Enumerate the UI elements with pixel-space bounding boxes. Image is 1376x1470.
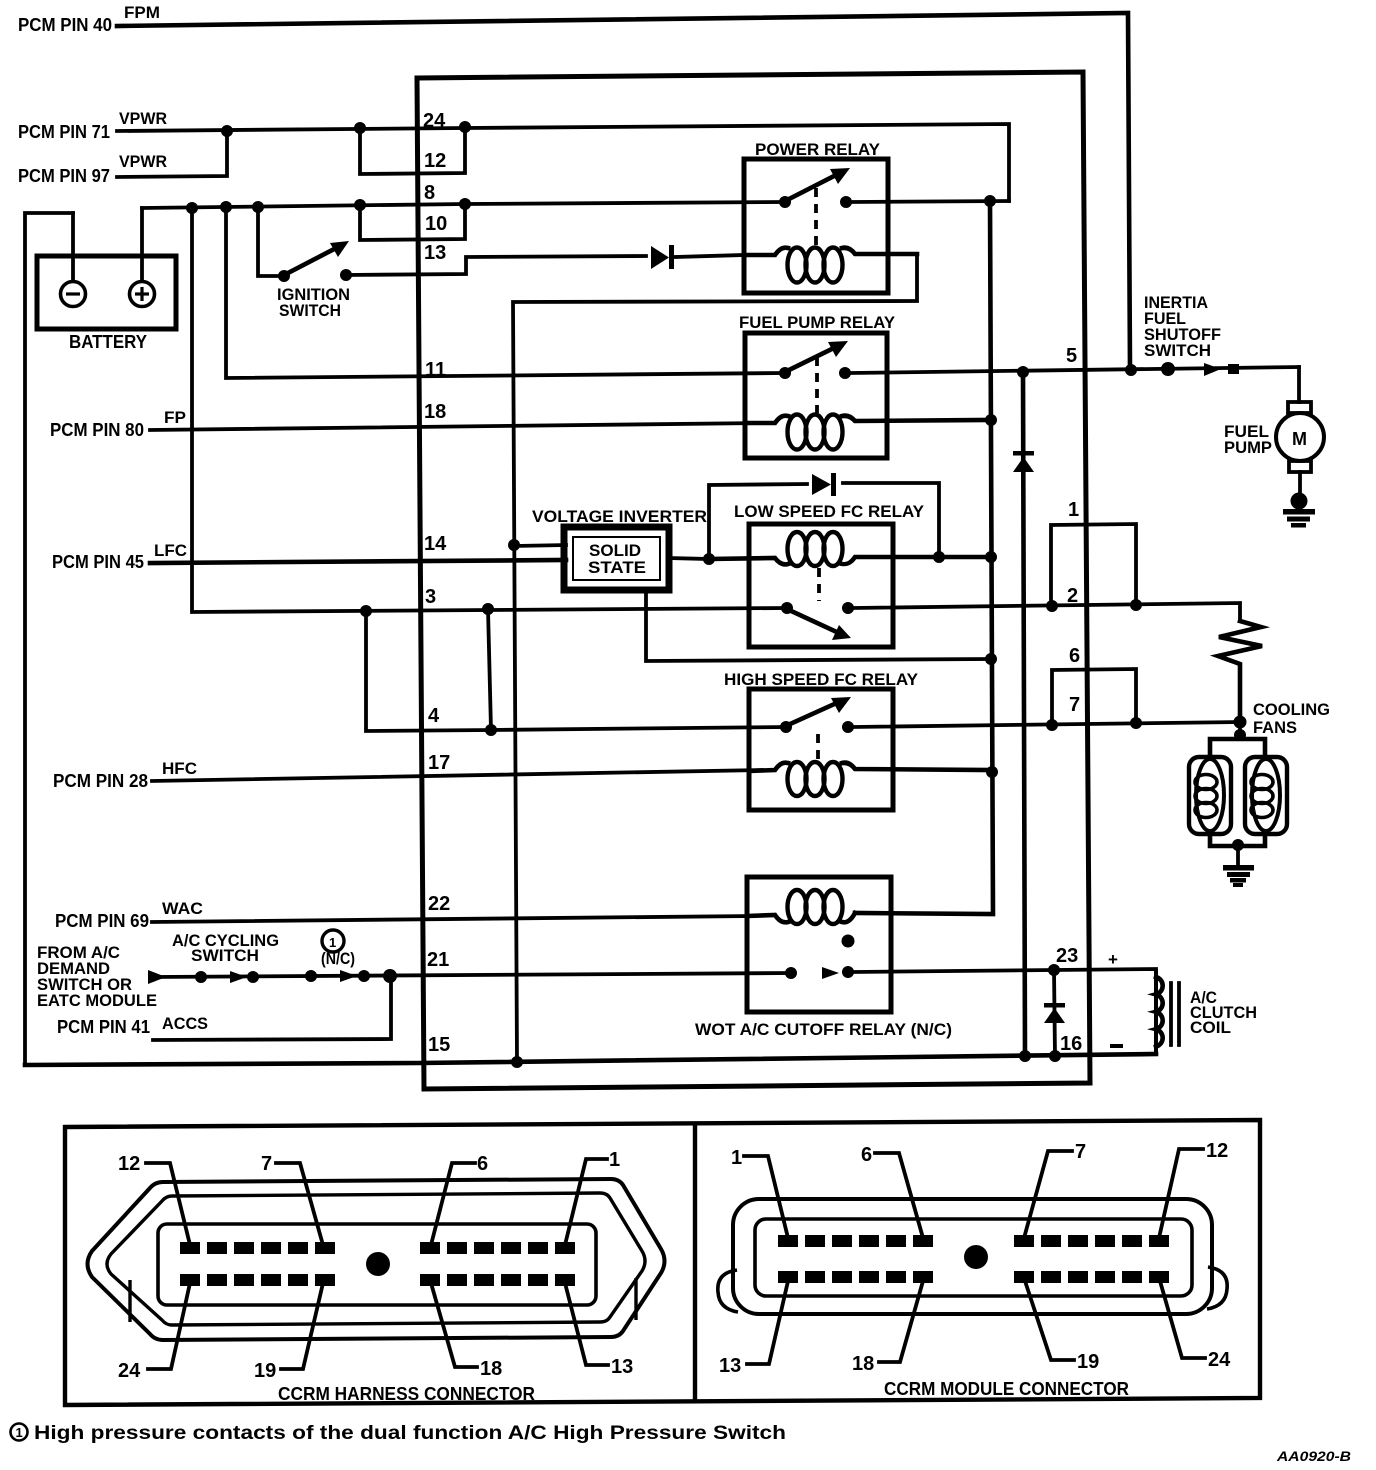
- pin number labels right edge of CCRM: [1056, 345, 1082, 1055]
- A/C clutch coil L1: [1108, 950, 1257, 1054]
- svg-text:18: 18: [424, 401, 446, 423]
- junction dot pin7 x1136: [1130, 717, 1142, 729]
- svg-text:12: 12: [1206, 1140, 1228, 1162]
- svg-text:1: 1: [1068, 499, 1079, 521]
- CCRM module connector J2 outline: [718, 1199, 1227, 1314]
- junction dot pin4 x491: [485, 724, 497, 736]
- svg-text:+: +: [1108, 950, 1118, 969]
- junction dot ACCS joins pin 21: [383, 969, 397, 983]
- svg-text:PCM PIN 41: PCM PIN 41: [57, 1017, 150, 1037]
- svg-text:VPWR: VPWR: [119, 152, 167, 171]
- svg-text:CCRM MODULE CONNECTOR: CCRM MODULE CONNECTOR: [884, 1379, 1129, 1399]
- harness connector pin 18 label: [431, 1283, 502, 1380]
- CCRM module box U1: [417, 72, 1090, 1089]
- svg-text:14: 14: [424, 533, 447, 555]
- module connector pin pads top left group: [778, 1235, 933, 1247]
- module connector pin 24 label: [1160, 1281, 1231, 1371]
- wire pin 5 down to fuel pump motor: [1297, 367, 1301, 402]
- wire ACCS from PCM PIN 41: [153, 976, 391, 1040]
- module connector pin 7 label: [1024, 1141, 1086, 1238]
- wire pin 7 HS output to cooling fans: [854, 722, 1240, 727]
- junction dot pin15 x517: [511, 1056, 523, 1068]
- wire ignition switch to pin 13 diode line: [346, 256, 646, 275]
- svg-text:1: 1: [731, 1147, 742, 1169]
- wire voltage inverter output: [669, 558, 709, 559]
- svg-text:COOLING: COOLING: [1253, 700, 1330, 719]
- junction dot fuel pump coil to B+ feed: [985, 414, 997, 426]
- node PCM PIN 45 label: [52, 541, 187, 572]
- junction dot pin7 x1052: [1046, 719, 1058, 731]
- svg-text:FP: FP: [164, 408, 186, 427]
- svg-text:WOT A/C CUTOFF RELAY (N/C): WOT A/C CUTOFF RELAY (N/C): [695, 1020, 952, 1039]
- junction dot bus x360: [354, 199, 366, 211]
- svg-text:23: 23: [1056, 945, 1078, 967]
- svg-text:LOW SPEED FC RELAY: LOW SPEED FC RELAY: [734, 502, 925, 521]
- diode CR2 on x1023 line: [1013, 372, 1034, 1056]
- svg-text:13: 13: [719, 1355, 741, 1377]
- svg-text:18: 18: [852, 1353, 874, 1375]
- diode CR3 on low speed relay loop: [812, 473, 836, 496]
- junction dot VPWR at x465: [459, 121, 471, 133]
- svg-text:High pressure contacts of the: High pressure contacts of the dual funct…: [34, 1423, 786, 1444]
- svg-text:COIL: COIL: [1190, 1018, 1231, 1037]
- svg-text:POWER RELAY: POWER RELAY: [755, 140, 881, 159]
- junction dot bus x465: [459, 198, 471, 210]
- low speed FC relay K3: [709, 502, 990, 647]
- junction dot x513 solid state feed: [508, 539, 520, 551]
- harness connector pin 19 label: [254, 1283, 323, 1382]
- wire power relay coil return to pin 15 via x513: [513, 254, 917, 1062]
- wire power relay output to VPWR corner: [852, 201, 1009, 202]
- svg-text:10: 10: [425, 213, 447, 235]
- svg-text:24: 24: [423, 110, 446, 132]
- svg-text:STATE: STATE: [588, 558, 646, 577]
- node FROM A/C DEMAND label: [37, 943, 157, 1010]
- harness connector pin pads bottom left group: [180, 1274, 335, 1286]
- svg-text:HIGH SPEED FC RELAY: HIGH SPEED FC RELAY: [724, 670, 919, 689]
- svg-text:19: 19: [1077, 1351, 1099, 1373]
- svg-text:4: 4: [428, 705, 440, 727]
- junction dot bus x258: [252, 201, 264, 213]
- ground fuel pump: [1283, 493, 1315, 528]
- harness connector pin pads top right group: [420, 1242, 575, 1254]
- wire pin 11 from bus to fuel pump relay: [226, 207, 784, 378]
- wire pin 3 from bus to LS relay switch: [192, 208, 787, 612]
- junction dot pin2 x1136: [1130, 599, 1142, 611]
- wire HFC pin 17 to high speed relay coil: [152, 770, 762, 781]
- svg-text:BATTERY: BATTERY: [69, 332, 147, 352]
- junction dot VPWR at x360: [354, 122, 366, 134]
- harness connector pin 24 label: [118, 1283, 190, 1382]
- svg-text:SWITCH: SWITCH: [191, 946, 259, 965]
- module connector pin pads top right group: [1014, 1235, 1169, 1247]
- diode CR4 between pin 23 and pin 16: [1044, 970, 1065, 1056]
- svg-text:PCM PIN 80: PCM PIN 80: [50, 420, 144, 440]
- svg-text:1: 1: [16, 1425, 23, 1440]
- ground cooling fans: [1223, 865, 1254, 887]
- svg-text:22: 22: [428, 893, 450, 915]
- junction dot bus x192: [186, 202, 198, 214]
- svg-text:5: 5: [1066, 345, 1077, 367]
- svg-text:PUMP: PUMP: [1224, 438, 1272, 457]
- drawing number AA0920-B: [1276, 1448, 1351, 1464]
- harness connector pin 6 label: [431, 1153, 488, 1245]
- battery B1: [25, 208, 176, 1065]
- junction dot pin3 x366: [360, 605, 372, 617]
- module connector pin 19 label: [1025, 1281, 1099, 1373]
- wire WAC pin 22 to WOT relay coil: [152, 916, 752, 922]
- svg-text:11: 11: [425, 359, 446, 381]
- module connector pin 12 label: [1159, 1140, 1228, 1238]
- svg-text:19: 19: [254, 1360, 276, 1382]
- wire pin 15 ground line battery return: [25, 1054, 1156, 1065]
- module connector caption: [884, 1379, 1129, 1399]
- wire fuel pump relay output pin 5: [851, 367, 1299, 373]
- module connector pin 1 label: [731, 1147, 788, 1238]
- svg-text:3: 3: [425, 586, 436, 608]
- wire B+ feed vertical x991 down to WOT coil: [855, 201, 993, 914]
- svg-text:FANS: FANS: [1253, 718, 1297, 737]
- module connector pin pads bottom right group: [1014, 1271, 1169, 1283]
- junction dot pin3 x488: [482, 603, 494, 615]
- wire pin 12 jumper loop: [360, 128, 465, 174]
- svg-text:6: 6: [861, 1144, 872, 1166]
- WOT A/C cutoff relay K5: [695, 877, 952, 1039]
- junction dot power relay output: [984, 195, 996, 207]
- ignition switch S1: [258, 207, 352, 320]
- power relay K1: [744, 140, 917, 293]
- junction dot diode loop right: [933, 551, 945, 563]
- A/C cycling switch S2: [172, 931, 279, 983]
- svg-text:PCM PIN 28: PCM PIN 28: [53, 771, 148, 791]
- node PCM PIN 71 label: [18, 109, 167, 142]
- wire VPWR from PCM PIN 97 joining pin 71 line: [117, 131, 227, 177]
- wire diode loop over low speed relay: [709, 483, 939, 559]
- junction dot VPWR at x227: [221, 125, 233, 137]
- junction dot bus x226: [220, 201, 232, 213]
- junction dot y660 to B+ feed: [985, 653, 997, 665]
- svg-text:1: 1: [609, 1149, 620, 1171]
- svg-text:17: 17: [428, 752, 450, 774]
- svg-text:PCM PIN 69: PCM PIN 69: [55, 911, 149, 931]
- svg-text:18: 18: [480, 1358, 502, 1380]
- junction dot pin5 diode branch: [1017, 366, 1029, 378]
- wire pin 10 jumper loop: [360, 204, 465, 240]
- svg-text:8: 8: [424, 182, 435, 204]
- junction dot pin15 x1025: [1019, 1050, 1031, 1062]
- node PCM PIN 80 label: [50, 408, 186, 440]
- fuel pump relay K2: [739, 313, 989, 458]
- svg-text:(N/C): (N/C): [321, 949, 355, 968]
- high pressure switch contact 1 (N/C): [305, 930, 370, 982]
- resistor R1 cooling fan: [1218, 621, 1262, 722]
- wire pin 21 ACCS line with A/C cycling switch: [148, 970, 791, 984]
- svg-text:CCRM HARNESS CONNECTOR: CCRM HARNESS CONNECTOR: [278, 1384, 535, 1404]
- harness connector pin 7 label: [261, 1153, 323, 1245]
- junction dot LS coil right at B+ feed: [985, 551, 997, 563]
- junction dot pin2 x1052: [1046, 600, 1058, 612]
- svg-text:WAC: WAC: [162, 899, 203, 918]
- module connector pin 13 label: [719, 1281, 788, 1377]
- node PCM PIN 69 label: [55, 899, 203, 931]
- svg-text:21: 21: [427, 949, 449, 971]
- svg-text:15: 15: [428, 1034, 450, 1056]
- svg-text:12: 12: [118, 1153, 140, 1175]
- svg-text:PCM PIN 40: PCM PIN 40: [18, 15, 112, 35]
- wire pin 23 WOT output to A/C clutch: [854, 969, 1156, 1054]
- svg-text:13: 13: [424, 242, 446, 264]
- junction dot pin23 diode branch: [1048, 964, 1060, 976]
- svg-text:HFC: HFC: [162, 759, 197, 778]
- diode CR1 on pin 13 line: [651, 245, 744, 269]
- module connector pin 6 label: [861, 1144, 923, 1238]
- fuel pump motor M1: [1224, 402, 1324, 492]
- svg-text:PCM PIN 97: PCM PIN 97: [18, 166, 110, 186]
- wire inverter bottom output to B+ feed: [646, 590, 990, 661]
- svg-text:16: 16: [1060, 1033, 1082, 1055]
- voltage inverter U2 solid state: [532, 507, 707, 590]
- node PCM PIN 97 label: [18, 152, 167, 186]
- svg-text:13: 13: [611, 1356, 633, 1378]
- harness connector pin pads top left group: [180, 1242, 335, 1254]
- junction dot pin5 FPM: [1125, 364, 1137, 376]
- svg-text:M: M: [1292, 429, 1307, 449]
- svg-text:PCM PIN 71: PCM PIN 71: [18, 122, 110, 142]
- junction dot inverter output: [703, 553, 715, 565]
- svg-text:6: 6: [1069, 645, 1080, 667]
- wire FPM from PCM PIN 40 to inertia switch node: [117, 13, 1130, 370]
- svg-text:24: 24: [118, 1360, 141, 1382]
- svg-text:EATC MODULE: EATC MODULE: [37, 991, 157, 1010]
- wire pin 2 LS output to resistor: [854, 603, 1240, 621]
- harness connector pin 1 label: [565, 1149, 620, 1245]
- node PCM PIN 41 label: [57, 1014, 208, 1037]
- high speed FC relay K4: [724, 670, 991, 810]
- wire pin 1 jumper loop: [1051, 524, 1136, 607]
- footnote high pressure contacts: [11, 1423, 787, 1444]
- harness connector pin 13 label: [565, 1283, 633, 1378]
- junction dot HS coil right at B+ feed: [986, 766, 998, 778]
- pin number labels left edge of CCRM: [423, 110, 450, 1056]
- wire VPWR pin 24 line: [117, 124, 1009, 201]
- svg-text:AA0920-B: AA0920-B: [1276, 1448, 1351, 1464]
- wire x513 branch to voltage inverter input: [514, 545, 566, 546]
- svg-text:SWITCH: SWITCH: [279, 301, 341, 320]
- module connector pin pads bottom left group: [778, 1271, 933, 1283]
- connector section frame: [65, 1120, 1260, 1405]
- wire LFC pin 14 to voltage inverter: [150, 560, 566, 563]
- wire pin3 to pin4 jumper loop: [366, 609, 491, 731]
- svg-text:ACCS: ACCS: [162, 1014, 208, 1033]
- svg-text:12: 12: [424, 150, 446, 172]
- svg-text:1: 1: [329, 935, 336, 950]
- svg-text:6: 6: [477, 1153, 488, 1175]
- node PCM PIN 40 label: [18, 3, 160, 35]
- CCRM harness connector J1 outline: [88, 1179, 665, 1340]
- svg-text:7: 7: [261, 1153, 272, 1175]
- svg-text:PCM PIN 45: PCM PIN 45: [52, 552, 144, 572]
- harness connector pin 12 label: [118, 1153, 190, 1245]
- harness connector caption: [278, 1384, 535, 1404]
- svg-text:FUEL PUMP RELAY: FUEL PUMP RELAY: [739, 313, 896, 332]
- svg-text:7: 7: [1075, 1141, 1086, 1163]
- cooling fans M2 M3: [1210, 700, 1330, 866]
- junction dot pin16 x1055: [1049, 1050, 1061, 1062]
- svg-text:LFC: LFC: [154, 541, 187, 560]
- inertia fuel shutoff switch S3: [1144, 293, 1239, 376]
- harness connector pin pads bottom right group: [420, 1274, 575, 1286]
- cooling fan motor right: [1245, 757, 1287, 834]
- wire pin 6 jumper loop: [1052, 669, 1136, 725]
- svg-text:SWITCH: SWITCH: [1144, 341, 1211, 360]
- svg-text:24: 24: [1208, 1349, 1231, 1371]
- svg-text:7: 7: [1069, 694, 1080, 716]
- wire FP pin 18 to fuel pump relay coil: [150, 423, 762, 430]
- wire battery bus to power relay pin 8: [142, 202, 784, 208]
- svg-text:VPWR: VPWR: [119, 109, 167, 128]
- svg-text:VOLTAGE INVERTER: VOLTAGE INVERTER: [532, 507, 707, 526]
- module connector pin 18 label: [852, 1281, 923, 1375]
- svg-text:FPM: FPM: [124, 3, 160, 22]
- wire pin 4 to HS relay switch: [491, 727, 786, 730]
- node PCM PIN 28 label: [53, 759, 197, 791]
- cooling fan motor left: [1189, 757, 1231, 834]
